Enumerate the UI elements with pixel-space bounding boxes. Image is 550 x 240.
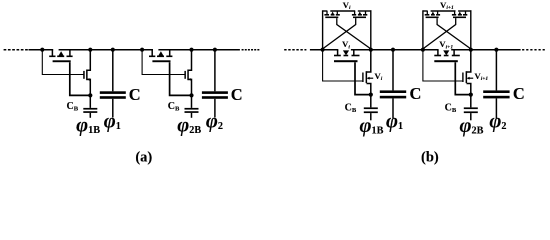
svg-text:C: C <box>513 84 525 103</box>
svg-text:C: C <box>129 85 141 104</box>
capacitor CB2a <box>185 95 199 117</box>
node C2a junction <box>213 48 217 52</box>
wire node N1b to MD1b gate <box>323 50 363 81</box>
wire MS1a gate to node G1a <box>70 62 91 95</box>
label clock phi_2 (b) <box>489 110 506 132</box>
svg-text:(a): (a) <box>135 149 152 165</box>
svg-text:C: C <box>231 85 243 104</box>
label CB1b value C_B <box>345 103 357 115</box>
label C1a value C <box>129 85 141 104</box>
transistor MD2a aux NMOS diode <box>184 50 191 96</box>
wire bulk Vi+1 arrow into MD2b <box>467 77 474 80</box>
label C2a value C <box>231 85 243 104</box>
wire bulk Vi arrow into MD1b <box>367 77 374 80</box>
wire bulk rail Vi <box>323 10 372 48</box>
transistor MS1a pass NMOS (a) <box>49 50 72 63</box>
capacitor C2b main <box>483 50 509 119</box>
transistor MD1b aux NMOS <box>362 50 371 95</box>
capacitor C1b main <box>380 50 406 119</box>
label clock phi_1 <box>104 111 121 133</box>
node N2b junction <box>369 48 373 52</box>
transistor MD2b aux NMOS <box>462 50 471 95</box>
wire MS1b gate to node G1b <box>355 62 371 94</box>
transistor MS2a pass NMOS (a) <box>149 50 172 63</box>
transistor MC1a-top-left (b) <box>324 11 339 18</box>
node G2a junction <box>189 93 193 97</box>
label CB2b value C_B <box>445 103 457 115</box>
node G1a junction <box>88 93 92 97</box>
label (b) <box>421 149 439 165</box>
label CB2a value C_B <box>168 101 180 113</box>
transistor MC1b-top-right (b) <box>352 11 367 18</box>
wire bus (a) left dashed lead <box>4 49 28 51</box>
label clock phi_2B (b) <box>460 115 484 137</box>
label bulk Vi at MD1b <box>374 71 382 82</box>
capacitor CB1a <box>83 95 97 117</box>
wire node N1a to MD1a gate <box>42 50 84 75</box>
wire bulk rail Vi+1 <box>423 10 472 48</box>
wire MS2b gate to node G2b <box>455 62 471 94</box>
svg-text:(b): (b) <box>421 149 439 165</box>
capacitor CB1b <box>364 95 378 121</box>
label bulk Vi+1 at MS2b <box>439 39 453 50</box>
wire MS2a gate to node G2a <box>170 62 192 95</box>
node G1b junction <box>369 93 373 97</box>
label C2b value C <box>513 84 525 103</box>
wire bulk Vi+1 arrow into MS2b <box>443 50 449 55</box>
label node Vi top <box>343 0 351 11</box>
transistor MC2b-top-right (b) <box>452 11 467 18</box>
label (a) <box>135 149 152 165</box>
label CB1a value C_B <box>67 101 79 113</box>
transistor MS1b pass NMOS (b) <box>334 50 360 63</box>
capacitor CB2b <box>464 95 478 121</box>
node N1a junction <box>40 48 44 52</box>
capacitor C1a main <box>100 50 126 118</box>
transistor MD1a aux NMOS diode <box>83 50 90 96</box>
node N3b junction <box>469 48 473 52</box>
node C2b junction <box>494 48 498 52</box>
node N2a junction <box>88 48 92 52</box>
node N3a junction <box>189 48 193 52</box>
wire bus (b) right dashed lead <box>522 49 545 51</box>
svg-text:C: C <box>410 84 422 103</box>
node G2b junction <box>469 93 473 97</box>
node N1b junction <box>321 48 325 52</box>
transistor MC2a-top-left (b) <box>425 11 440 18</box>
label C1b value C <box>410 84 422 103</box>
wire MC1 top-right gate cross to node N1b <box>323 18 356 49</box>
label bulk Vi+1 at MD2b <box>474 71 488 82</box>
wire MC2 top-right gate cross to node N2b <box>423 18 456 49</box>
node N2a junction <box>140 48 144 52</box>
node C1a junction <box>111 48 115 52</box>
wire bus (a) main <box>29 49 240 51</box>
node N2b junction <box>421 48 425 52</box>
wire bulk Vi arrow into MS1b <box>343 50 349 55</box>
label clock phi_1 (b) <box>386 110 403 132</box>
label clock phi_2 <box>206 111 223 133</box>
wire bus (b) left dashed lead <box>284 49 306 51</box>
wire node N2a to MD2a gate <box>142 50 185 75</box>
label clock phi_2B <box>177 115 201 137</box>
wire MC2 top-left gate cross to node N3b <box>437 18 471 49</box>
wire MC1 top-left gate cross to node N2b <box>337 18 371 49</box>
wire bus (b) main <box>310 49 521 51</box>
label bulk Vi at MS1b <box>342 39 350 50</box>
label node Vi+1 top <box>440 0 454 11</box>
node C1b junction <box>391 48 395 52</box>
wire bus (a) right dashed lead <box>242 49 260 51</box>
capacitor C2a main <box>202 50 228 118</box>
transistor MS2b pass NMOS (b) <box>434 50 460 63</box>
label clock phi_1B (b) <box>360 115 384 137</box>
wire node N2b to MD2b gate <box>423 50 463 81</box>
label clock phi_1B <box>76 115 100 137</box>
